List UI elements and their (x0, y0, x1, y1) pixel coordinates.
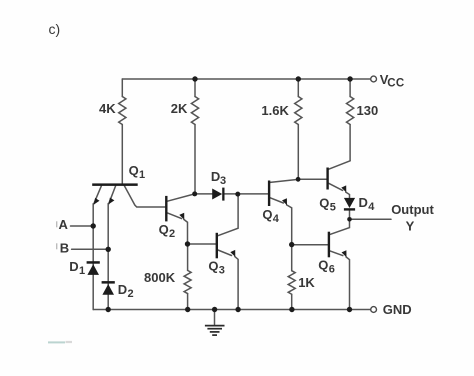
svg-text:D: D (211, 169, 220, 184)
svg-text:Q: Q (159, 222, 169, 237)
svg-text:Q: Q (208, 258, 218, 273)
svg-text:Y: Y (406, 218, 415, 233)
svg-text:5: 5 (330, 202, 336, 214)
svg-text:6: 6 (329, 263, 335, 275)
svg-text:1.6K: 1.6K (261, 103, 289, 118)
svg-text:4: 4 (368, 201, 375, 213)
svg-text:Output: Output (391, 202, 434, 217)
svg-text:3: 3 (220, 175, 226, 187)
svg-text:B: B (60, 240, 69, 255)
svg-text:2K: 2K (171, 101, 188, 116)
svg-text:CC: CC (387, 77, 404, 89)
svg-text:GND: GND (383, 302, 412, 317)
svg-text:Q: Q (262, 207, 272, 222)
svg-text:Q: Q (319, 196, 329, 211)
svg-text:D: D (359, 195, 368, 210)
svg-text:D: D (69, 259, 78, 274)
svg-text:800K: 800K (144, 270, 176, 285)
svg-text:A: A (59, 217, 69, 232)
svg-text:130: 130 (357, 103, 379, 118)
svg-text:Q: Q (318, 257, 328, 272)
svg-text:4K: 4K (99, 101, 116, 116)
svg-text:Q: Q (129, 163, 139, 178)
svg-text:c): c) (49, 21, 61, 37)
svg-text:1: 1 (139, 169, 145, 181)
svg-text:1: 1 (79, 265, 85, 277)
svg-text:2: 2 (128, 288, 134, 300)
svg-text:2: 2 (169, 228, 175, 240)
svg-text:4: 4 (273, 213, 280, 225)
svg-text:D: D (118, 282, 127, 297)
svg-text:3: 3 (219, 264, 225, 276)
svg-text:1K: 1K (298, 275, 315, 290)
